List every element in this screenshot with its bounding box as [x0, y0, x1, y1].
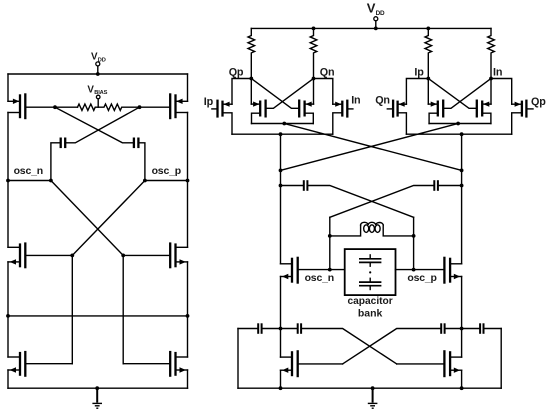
node top rail dots: [312, 27, 431, 31]
wire mid rail: [8, 315, 188, 317]
capacitor C8 cross-couple left: [281, 323, 397, 364]
capacitor bank box: [345, 249, 396, 295]
wire left main rail upper: [280, 134, 282, 264]
wire bottom rail left circuit: [8, 387, 188, 389]
svg-text:bank: bank: [358, 307, 383, 319]
wire outer ground rail left: [237, 329, 239, 389]
ellipsis dots in bank: [369, 271, 371, 273]
node mid-left gate dot: [70, 254, 74, 258]
node mid rail dots: [6, 314, 189, 318]
inductor L1: [330, 222, 414, 236]
transistor M10 bottom-right cross-coupled: [397, 329, 462, 389]
node Ip dot: [426, 77, 430, 81]
transistor M6 bottom-right NMOS: [123, 351, 187, 377]
wire left rail lower segment: [7, 262, 9, 357]
wire outer source rail left block: [232, 133, 333, 135]
wire left rail mid segment: [7, 113, 9, 248]
wire inner tail rail left block: [252, 123, 314, 125]
ground symbol right circuit: [368, 388, 378, 408]
node bottom rail dots: [279, 386, 464, 390]
capacitor C7 degeneration far-left: [238, 323, 281, 334]
wire right main rail lower: [461, 277, 463, 329]
node osc_n dots: [6, 179, 53, 183]
wire coupling diagonal right-tail to left-rail: [281, 124, 459, 171]
svg-text:DD: DD: [376, 10, 385, 17]
wire cross-couple diagonal gate-left to cap-right: [55, 107, 133, 143]
resistor R2: [310, 28, 317, 78]
node osc_p dots: [143, 179, 189, 183]
transistor M7 osc_n follower: [281, 257, 330, 284]
wire VDD tap left: [97, 66, 99, 74]
capacitor C2 coupling right: [134, 138, 145, 181]
node outer rail dot left block: [279, 132, 283, 136]
resistor R3: [425, 28, 432, 78]
node Qp dot: [249, 77, 253, 81]
transistor M1 top-left PMOS: [8, 93, 55, 119]
wire left rail upper segment: [7, 74, 9, 101]
svg-text:BIAS: BIAS: [94, 90, 107, 96]
transistor M8 osc_p follower: [414, 257, 462, 284]
svg-text:Qn: Qn: [320, 66, 335, 78]
transistor M9 bottom-left cross-coupled: [281, 329, 343, 389]
node right rail diag dot: [460, 169, 464, 173]
transistor M2 top-right PMOS: [140, 93, 188, 119]
VDD terminal circle left: [96, 62, 100, 66]
ground symbol left circuit: [92, 388, 102, 408]
wire gate link vertical right: [122, 255, 124, 363]
wire VBIAS tap: [97, 99, 99, 107]
capacitor bank label: [347, 296, 392, 319]
node tank dots: [328, 234, 416, 238]
wire coupling diagonal left-tail to right-rail: [284, 124, 461, 171]
node VBIAS label: [87, 84, 107, 96]
transistor Q4 outer-right of I-pair block: [314, 79, 353, 135]
transistor Q3 inner-right of I-pair block: [251, 79, 313, 124]
wire right rail mid segment: [187, 113, 189, 248]
node VDD label right: [367, 1, 385, 17]
wire tank left vertical: [329, 217, 331, 269]
wire right rail bottom segment: [187, 370, 189, 388]
wire left main rail lower: [280, 277, 282, 329]
svg-text:In: In: [493, 66, 502, 78]
wire left rail bottom segment: [7, 370, 9, 388]
capacitor C1 coupling left: [51, 138, 65, 181]
node junction dot VDD rail left: [96, 72, 100, 76]
wire top supply rail right circuit: [251, 27, 491, 29]
node ground dot left: [95, 386, 99, 390]
node inner tail dot right block: [456, 122, 460, 126]
wire top supply rail left circuit: [8, 73, 188, 75]
transistor Q2 inner-left of I-pair block: [251, 79, 313, 124]
capacitor C5 bank top: [359, 255, 381, 266]
wire cross-couple diagonal gate-right to cap-left: [66, 107, 139, 143]
transistor Q5 outer-left of Q-pair block: [387, 79, 428, 135]
wire osc_p stub: [145, 180, 188, 182]
resistor R_bias: [55, 104, 140, 110]
node osc_n dot right circuit: [328, 268, 332, 272]
svg-text:Ip: Ip: [414, 66, 424, 78]
wire inner tail rail right block: [429, 123, 491, 125]
wire outer source rail right block: [406, 133, 511, 135]
node Qn dot: [312, 77, 316, 81]
wire diagonal osc_n to right gate: [51, 181, 123, 256]
wire tank right vertical: [413, 217, 415, 269]
resistor R1: [248, 28, 255, 78]
transistor M4 mid-right NMOS: [123, 242, 187, 268]
transistor Q8 outer-right of Q-pair block: [491, 79, 533, 135]
svg-text:Ip: Ip: [204, 96, 214, 108]
svg-text:Qn: Qn: [375, 95, 390, 107]
capacitor C10 degeneration far-right: [462, 323, 502, 334]
node cap row2 right dot: [460, 327, 464, 331]
node left rail diag dot: [279, 169, 283, 173]
svg-text:osc_n: osc_n: [14, 165, 43, 177]
wire right rail lower segment: [187, 262, 189, 357]
node In dot: [489, 77, 493, 81]
node VDD label left: [91, 52, 106, 64]
wire right main rail upper: [461, 134, 463, 264]
capacitor C6 bank bottom: [359, 278, 381, 289]
wire osc_n lead to bank: [330, 269, 345, 271]
transistor Q6 inner-left of Q-pair block: [428, 79, 491, 124]
svg-text:capacitor: capacitor: [347, 296, 392, 307]
svg-text:In: In: [351, 95, 360, 107]
capacitor C9 cross-couple right: [343, 323, 462, 364]
wire bottom rail right circuit: [238, 387, 501, 389]
svg-text:Qp: Qp: [229, 66, 244, 78]
node cap row2 left dot: [279, 327, 283, 331]
node outer rail dot right block: [460, 132, 464, 136]
node gate right dot: [138, 105, 142, 109]
svg-text:osc_p: osc_p: [152, 165, 181, 177]
wire VDD tap right: [375, 21, 377, 28]
transistor Q7 inner-right of Q-pair block: [428, 79, 491, 124]
VBIAS terminal circle: [96, 95, 100, 99]
node mid-right gate dot: [121, 254, 125, 258]
svg-text:V: V: [367, 1, 376, 16]
transistor Q1 outer-left of I-pair block: [212, 79, 251, 135]
node inner tail dot left block: [282, 122, 286, 126]
svg-text:osc_p: osc_p: [407, 272, 436, 284]
node gate left dot: [53, 105, 57, 109]
transistor M3 mid-left NMOS: [8, 242, 72, 268]
wire osc_n stub: [8, 180, 51, 182]
wire right rail upper segment: [187, 74, 189, 101]
wire osc_p lead from bank: [396, 269, 414, 271]
node cap row1 right dot: [460, 184, 464, 188]
capacitor C4 coupling row1 right: [330, 180, 462, 217]
capacitor C3 coupling row1 left: [281, 180, 414, 217]
wire outer ground rail right: [500, 329, 502, 389]
wire gate link vertical left: [71, 255, 73, 363]
node cap row1 left dot: [279, 184, 283, 188]
wire diagonal osc_p to left gate: [72, 181, 145, 256]
svg-text:osc_n: osc_n: [305, 272, 334, 284]
transistor M5 bottom-left NMOS: [8, 351, 72, 377]
VDD terminal circle right: [374, 17, 378, 21]
resistor R4: [488, 28, 495, 78]
node osc_p dot right circuit: [412, 268, 416, 272]
svg-text:Qp: Qp: [531, 96, 546, 108]
